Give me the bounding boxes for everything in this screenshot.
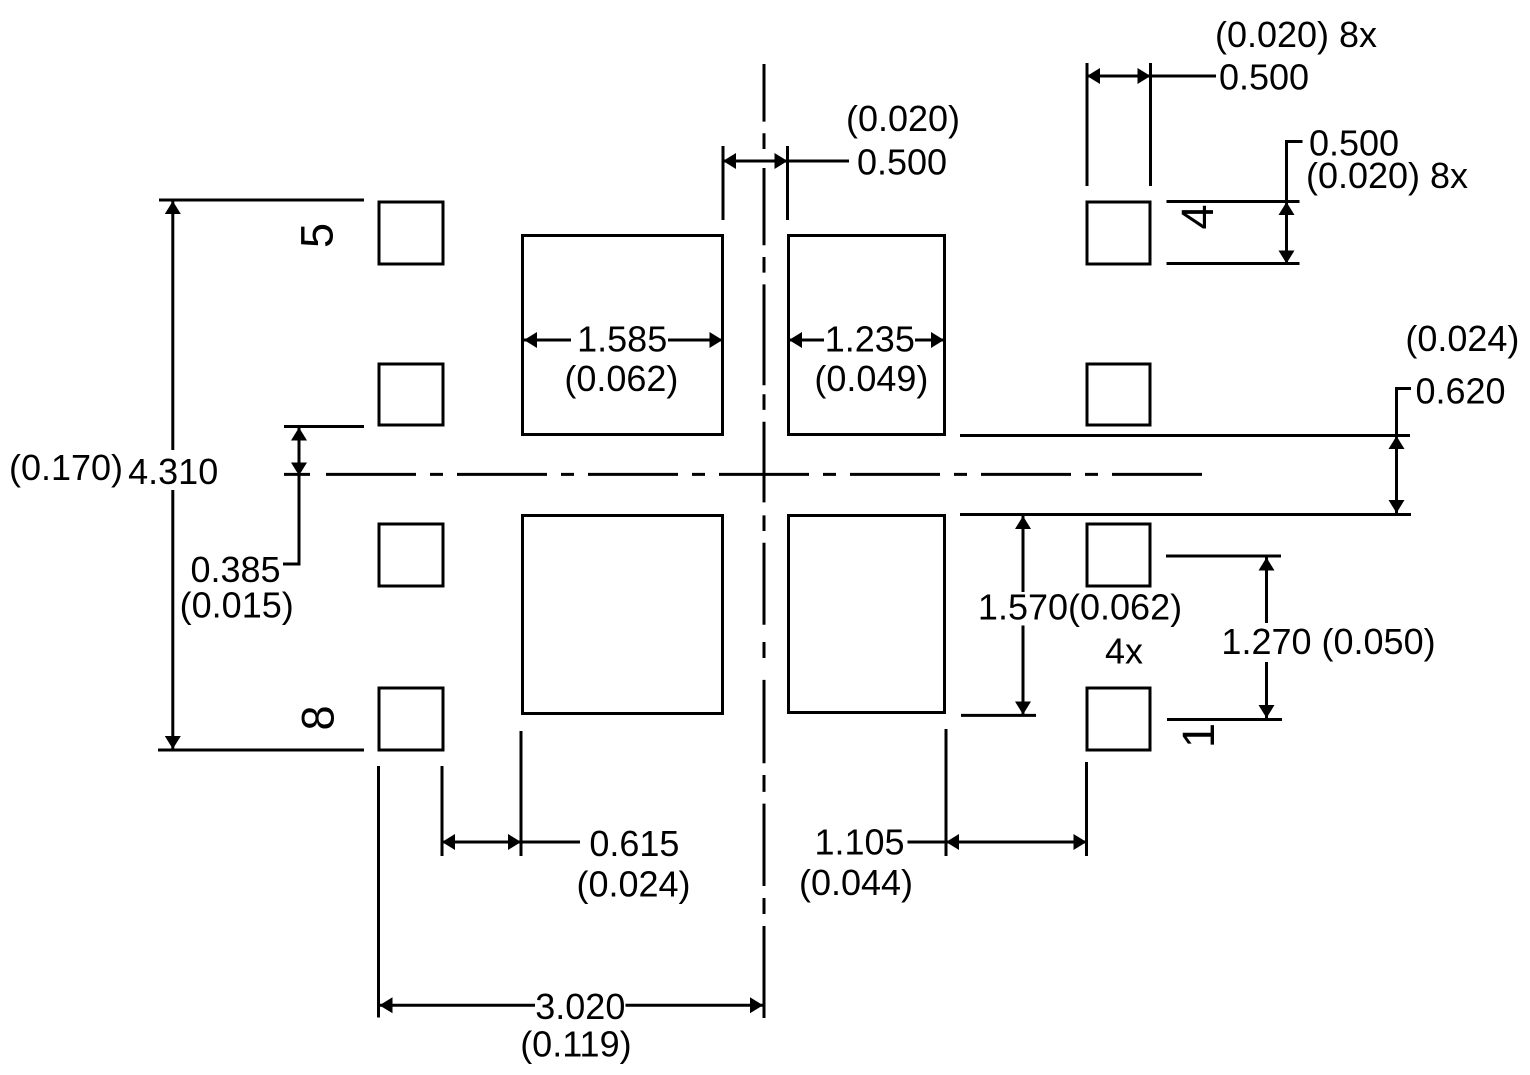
svg-text:1.235: 1.235 [825,318,915,359]
svg-text:8: 8 [293,705,344,730]
arrowheads dim 1.585 [524,332,537,348]
dim 1.585: shafts [524,339,723,342]
arrowheads dim 0.500 center [723,153,736,169]
dim 3.020: shaft segments [380,1004,764,1007]
svg-text:4.310: 4.310 [128,451,218,492]
svg-text:1.270 (0.050): 1.270 (0.050) [1221,621,1435,662]
thermal pad upper-left [523,236,723,435]
dim 1.570: bottom extension [961,714,1036,717]
pad 7 [379,524,443,586]
dim 1.105: extension lines [945,729,948,856]
pad 2 [1087,524,1150,586]
svg-text:(0.020) 8x: (0.020) 8x [1215,14,1377,55]
dim 1.105: shaft + leader [908,841,1087,844]
dim 3.020: extension line [377,766,380,1018]
svg-text:0.500: 0.500 [1219,56,1309,97]
svg-text:5: 5 [292,223,343,248]
horizontal centerline start dash [284,473,310,476]
svg-text:(0.062): (0.062) [564,358,678,399]
pad 8 [379,688,443,750]
svg-text:(0.044): (0.044) [799,862,913,903]
svg-text:(0.015): (0.015) [180,584,294,625]
svg-text:4: 4 [1172,204,1223,229]
arrowheads dim 3.020 [380,997,393,1013]
dim 4.310: shaft segments [171,201,174,749]
pad 5 [379,202,443,264]
svg-text:(0.049): (0.049) [814,358,928,399]
dim 0.500 top right: shaft + leader [1087,75,1216,78]
thermal pad lower-right [789,516,945,713]
arrowheads dim 0.500 top right [1087,68,1100,84]
dim 0.500 8x: bracket leader [1287,142,1303,203]
dim 0.620: extension lines [960,434,1410,437]
dim 1.235: shafts [789,339,944,342]
arrowheads dim 4.310 [165,201,181,214]
dim 0.615: shaft + leader [442,841,580,844]
dim 0.500 8x pad height right: extension lines [1167,200,1300,203]
svg-text:0.500: 0.500 [857,142,947,183]
dim 0.385: shaft + elbow leader [283,428,299,565]
dim 0.620: bracket leader [1397,389,1412,436]
dim 1.270: arrow shaft [1265,558,1268,719]
arrowheads dim 0.615 [442,834,455,850]
dim 1.270: extension lines [1166,555,1281,558]
arrowheads dim 0.620 [1389,436,1405,449]
arrowheads dim 1.570 [1015,516,1031,529]
dim 0.615: extension lines [441,766,444,856]
dim 0.500 center gap: arrow shaft + leader [723,160,849,163]
vertical centerline [763,64,766,1018]
pad 3 [1087,364,1150,425]
dim 0.385: extension line [284,425,364,428]
dim 0.620: arrow shaft [1395,436,1398,513]
svg-text:0.615: 0.615 [589,823,679,864]
dim 1.570: shaft segments [1022,516,1025,715]
svg-text:1.585: 1.585 [577,318,667,359]
arrowheads dim 0.385 [291,428,307,441]
dim 0.500 top right pad width: extension lines [1086,63,1089,186]
dim 4.310: extension lines [159,199,364,202]
arrowheads dim 0.500 8x vertical [1279,202,1295,215]
dim 0.500 center gap: extension lines [722,146,725,220]
svg-text:1.105: 1.105 [814,822,904,863]
svg-text:(0.024): (0.024) [1405,318,1519,359]
svg-text:0.620: 0.620 [1415,370,1505,411]
svg-text:(0.020) 8x: (0.020) 8x [1306,155,1468,196]
arrowheads dim 1.105 [946,834,959,850]
svg-text:4x: 4x [1105,631,1143,672]
pad 4 [1087,202,1150,264]
pad 1 [1087,688,1150,750]
thermal pad upper-right [789,236,945,435]
svg-text:(0.020): (0.020) [846,98,960,139]
svg-text:3.020: 3.020 [535,986,625,1027]
thermal pad lower-left [523,516,723,714]
svg-text:(0.170): (0.170) [9,447,123,488]
arrowheads dim 1.235 [789,332,802,348]
svg-text:(0.119): (0.119) [520,1024,631,1065]
pad 6 [379,364,443,425]
dim 0.500 8x: vertical arrow shaft [1285,202,1288,264]
horizontal centerline [326,473,1203,476]
svg-text:1: 1 [1173,723,1224,748]
svg-text:1.570(0.062): 1.570(0.062) [978,587,1182,628]
arrowheads dim 1.270 [1259,558,1275,571]
svg-text:(0.024): (0.024) [576,863,690,904]
